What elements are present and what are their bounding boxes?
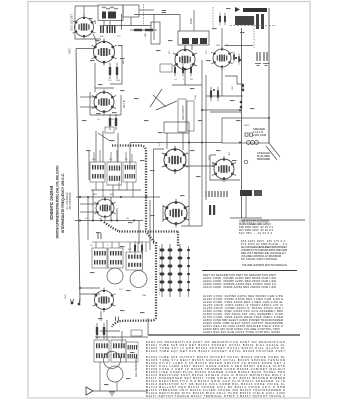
antenna coil box	[98, 5, 123, 21]
tube V10 driver	[162, 146, 188, 175]
staircase wire	[225, 76, 243, 91]
can leads row3	[100, 362, 117, 391]
coupling caps	[98, 233, 119, 321]
wire V6 loop	[181, 225, 202, 227]
ground symbol	[109, 392, 115, 396]
tube V4 second detector	[94, 196, 116, 219]
tube V3 IF amplifier	[92, 89, 116, 115]
oscillator box loop	[75, 6, 101, 39]
rule line	[148, 334, 300, 336]
coupling unit box	[131, 330, 142, 336]
wire	[201, 109, 240, 111]
wire V2 plate	[110, 46, 122, 84]
IF transformer can 1	[90, 162, 105, 182]
filter capacitors	[257, 52, 267, 61]
wire	[147, 318, 149, 335]
tube V9 power output	[212, 156, 236, 182]
oscillator coil box	[178, 31, 209, 45]
choke can 2	[111, 340, 126, 362]
parts list G	[146, 340, 286, 398]
tube V1 oscillator	[73, 15, 96, 40]
parts list E	[203, 294, 284, 328]
resistors below V2	[109, 63, 118, 79]
wire	[193, 10, 195, 31]
wave trap box	[123, 5, 139, 17]
wire V1 grid	[83, 6, 85, 16]
wire	[230, 217, 262, 219]
wire V9 plate	[210, 111, 241, 113]
wire coil tap	[104, 14, 151, 30]
wire	[91, 189, 141, 191]
wire top	[78, 5, 98, 7]
wire	[80, 287, 100, 289]
components below V5	[96, 323, 105, 339]
wire B+ vertical	[268, 8, 270, 143]
bypass blobs	[235, 57, 244, 108]
parts list D	[203, 273, 277, 289]
wire V10 top	[154, 133, 184, 150]
choke can 1	[94, 340, 109, 362]
wire V1 cathode	[93, 34, 96, 48]
tube V8 oscillator	[211, 46, 233, 69]
rectifier circle	[107, 268, 123, 284]
rule line	[241, 219, 305, 221]
wire V3 to IF cans	[89, 131, 130, 180]
wire bus2	[75, 220, 143, 222]
cap C5	[162, 11, 167, 13]
wire V8 cathode	[221, 67, 223, 96]
dashed shield line 3	[253, 20, 255, 48]
wire	[149, 200, 151, 250]
volume control box	[178, 99, 186, 132]
ant gnd terminals	[70, 298, 80, 305]
tube V6 AVC	[163, 199, 189, 228]
wire V7 cathode	[172, 72, 202, 85]
component box	[160, 64, 172, 72]
resistor 330	[130, 29, 146, 31]
wire bus	[201, 60, 203, 226]
AC line dashed	[230, 25, 276, 27]
speaker circle B	[107, 366, 123, 382]
power transformer	[235, 7, 267, 29]
detector diode load	[134, 221, 143, 255]
output transformer	[240, 190, 262, 196]
dial lamp circle	[130, 271, 147, 288]
capacitors below V7	[174, 64, 192, 77]
wire output primary	[245, 196, 247, 218]
wire V3 grid loop	[95, 88, 121, 115]
wire	[205, 75, 207, 200]
wire	[153, 14, 155, 40]
voltage table B	[241, 239, 288, 261]
line fuse components	[219, 13, 226, 26]
wire	[206, 95, 243, 97]
band switch wafer	[150, 89, 177, 110]
parts list F	[203, 327, 281, 334]
tube V2 first detector	[91, 38, 116, 65]
wire V10 to V9	[186, 165, 214, 167]
antenna coil A40	[100, 21, 116, 34]
IF transformer can 3	[123, 162, 136, 182]
output chokes	[209, 205, 215, 215]
padder box	[151, 22, 160, 44]
tone control box	[187, 101, 194, 131]
plug pin circle	[244, 160, 248, 164]
wire grid V2	[76, 48, 94, 50]
wire	[130, 142, 222, 144]
wire	[87, 197, 89, 240]
terminal strip comb	[206, 191, 227, 197]
wire V5 bottom	[100, 311, 102, 321]
wire V6 left	[162, 205, 164, 222]
voltage table A	[239, 220, 274, 236]
wire bus links	[93, 190, 117, 220]
tube labels	[122, 18, 215, 377]
cap ground hatch	[255, 64, 269, 66]
tube V7 mixer	[173, 47, 197, 73]
dashed shield line 2	[143, 4, 145, 25]
band switch grid	[160, 244, 191, 297]
wire	[188, 133, 190, 226]
wire antenna lead	[76, 49, 80, 302]
wire V8 grid	[221, 28, 223, 48]
filter can 1	[92, 248, 107, 268]
wire V7 plate	[185, 45, 192, 50]
wire	[92, 390, 148, 392]
wire V9 loop	[210, 155, 240, 180]
wire V3 grid leads	[80, 97, 94, 107]
shielded cable	[104, 146, 178, 328]
resistor grid leak	[141, 29, 157, 31]
IF can box small	[164, 122, 189, 133]
speaker plug diagonal	[266, 143, 280, 160]
wire	[80, 293, 100, 295]
can leads row1	[94, 150, 133, 197]
resistors below V3	[105, 114, 117, 133]
wire plate supply	[241, 28, 243, 218]
choke can 3	[126, 342, 138, 362]
can leads row2	[92, 242, 150, 252]
filter can 2	[108, 248, 123, 268]
wire	[153, 149, 155, 244]
wire V2 cathode	[94, 63, 96, 92]
wire	[134, 14, 180, 16]
osc grid resistors	[233, 51, 240, 64]
dashed shield line	[212, 7, 214, 28]
wire V3 loop	[90, 92, 121, 115]
speaker box	[222, 118, 269, 145]
speaker field label	[253, 127, 266, 137]
IF transformer can 2	[107, 162, 121, 185]
detector cluster	[210, 87, 219, 101]
component value labels (illegible)	[82, 8, 255, 385]
rule line	[202, 270, 297, 272]
value labels	[65, 20, 250, 339]
wire AVC bus	[76, 196, 160, 198]
filter can 3	[126, 252, 143, 270]
wire output stage	[95, 320, 148, 348]
wire osc coil feed	[179, 15, 181, 32]
tube V5 output	[93, 288, 116, 313]
speaker cone	[86, 387, 93, 395]
title text	[49, 165, 72, 238]
speaker plug label	[257, 151, 271, 161]
wire V4 grid leads	[80, 204, 96, 212]
wire plate feed	[225, 45, 253, 47]
speaker circle A	[104, 352, 121, 369]
wire wave trap link	[139, 9, 154, 11]
